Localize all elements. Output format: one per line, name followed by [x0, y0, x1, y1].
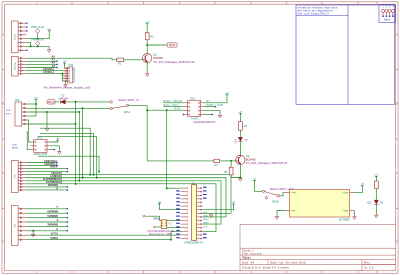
wire GND row: [26, 171, 67, 173]
wire PS1 -Vin gnd: [277, 211, 285, 216]
wire ICSP gnd: [50, 146, 59, 151]
wire MCLR stub: [147, 44, 167, 46]
wire U1 vcc left: [160, 203, 181, 210]
svg-text:PWR_FLAG: PWR_FLAG: [31, 38, 44, 41]
wire GND net: [26, 46, 49, 48]
wire MOSI/PGD: [205, 106, 216, 108]
wire gnd bend: [26, 43, 30, 47]
wire R5 to gnd: [231, 175, 240, 178]
IC pin net labels: [176, 187, 206, 239]
svg-text:Pin_HeaderPin_Header_Straight_: Pin_HeaderPin_Header_Straight_1x06: [44, 85, 91, 89]
wire R2 to base: [124, 59, 143, 61]
transistor Q2: [236, 155, 246, 164]
ground Q2: [239, 178, 243, 182]
wire AD4(SDA): [26, 162, 56, 164]
svg-text:CSTCE16M0V53-R0: CSTCE16M0V53-R0: [147, 229, 174, 233]
ground CN2: [45, 127, 49, 131]
ground PS1 in: [275, 215, 279, 219]
wire A3: [26, 67, 56, 69]
wire SW1B to PS1: [279, 193, 284, 196]
wire 1(TX): [26, 234, 180, 236]
wire PS1 -Vout: [353, 211, 355, 216]
wire CN5 gnd: [205, 111, 221, 114]
mounting holes box: [379, 5, 395, 23]
wire bundle 1: [26, 175, 231, 214]
wire R1 to Q1: [146, 40, 148, 54]
wire 4: [26, 221, 67, 223]
svg-text:C: C: [2, 171, 4, 175]
connector P4 IOL: [12, 206, 27, 246]
wire gnd stub: [32, 231, 34, 233]
ground PS1 out: [353, 216, 357, 220]
svg-text:ICSP: ICSP: [6, 110, 12, 112]
no-connect X1: [143, 215, 145, 217]
wire pin3 ext: [26, 111, 79, 113]
wire 9(PWM): [26, 186, 67, 188]
svg-text:RST: RST: [175, 108, 181, 111]
svg-text:0(RX): 0(RX): [50, 236, 58, 240]
wire Q1 emitter: [146, 62, 148, 72]
wire 5(PWM): [26, 217, 67, 219]
svg-text:C: C: [396, 171, 398, 175]
svg-text:ICSP: ICSP: [12, 144, 18, 146]
wire LED to gnd: [375, 204, 377, 214]
wire CN5 p4: [205, 114, 213, 116]
resistor R5: [229, 167, 233, 175]
svg-text:16MHz: 16MHz: [153, 218, 161, 220]
svg-text:MC78E05: MC78E05: [339, 219, 350, 221]
wire U1 vcc: [202, 204, 233, 210]
wire RST row: [147, 109, 184, 111]
ground LD1: [375, 214, 379, 218]
wire A2: [26, 63, 56, 65]
svg-text:Id: 1/1: Id: 1/1: [364, 265, 374, 269]
svg-text:ON: ON: [380, 203, 384, 205]
wire bundle 4: [26, 184, 216, 231]
wire bus V3: [78, 112, 80, 181]
svg-text:ATMEGA328P-AU: ATMEGA328P-AU: [184, 242, 203, 245]
wire SCK/PGC: [163, 106, 184, 108]
wire ATM pin3 left: [26, 132, 30, 150]
wire bus V2: [82, 108, 84, 177]
svg-text:CONN_ICSP: CONN_ICSP: [34, 154, 48, 156]
diode D2: [61, 100, 66, 104]
wire vert to R4: [146, 105, 148, 160]
svg-text:[ATM]: [ATM]: [12, 147, 18, 150]
no-connect X2: [153, 226, 155, 228]
wire ICSP vcc: [50, 140, 57, 142]
svg-text:BC846B: BC846B: [153, 56, 163, 60]
svg-text:MCLR: MCLR: [169, 45, 176, 47]
svg-text:SCK: SCK: [203, 226, 208, 228]
mounting hole MK2: [385, 9, 388, 12]
svg-text:D: D: [396, 240, 398, 244]
resistor R2: [117, 58, 124, 61]
svg-text:1N4148: 1N4148: [58, 96, 68, 100]
svg-text:Power: Power: [14, 34, 17, 40]
svg-text:KiCad E.D.A. kicad 4.0.1-stab: KiCad E.D.A. kicad 4.0.1-stable: [242, 265, 289, 269]
svg-text:TO_SOT_Packages_SMD:SOT-23: TO_SOT_Packages_SMD:SOT-23: [246, 161, 288, 165]
wire A5: [26, 72, 64, 74]
wire IC pin1: [167, 187, 181, 189]
svg-text:TO_SOT_Packages_SMD:SOT-23: TO_SOT_Packages_SMD:SOT-23: [153, 60, 195, 64]
wire R3 to LED: [239, 130, 241, 137]
svg-text:-Vout: -Vout: [343, 209, 349, 212]
wire +5V vert: [35, 99, 37, 116]
svg-text:MISO: MISO: [203, 219, 209, 221]
svg-text:5(PWM): 5(PWM): [47, 214, 58, 218]
wire bundle 2: [26, 178, 226, 217]
wire A4: [26, 70, 64, 72]
wire SW common: [129, 104, 148, 106]
svg-text:MOSI: MOSI: [203, 223, 209, 225]
svg-text:B: B: [396, 102, 398, 106]
wire CN5 vcc: [205, 94, 228, 103]
svg-text:UserPads:ARK2x4: UserPads:ARK2x4: [193, 120, 216, 124]
wire U1 gnd: [202, 212, 211, 215]
svg-text:3(PWM): 3(PWM): [47, 223, 58, 227]
resistor R1: [145, 33, 149, 40]
svg-text:B: B: [2, 102, 4, 106]
wire AD5(SCL): [26, 165, 56, 167]
svg-text:Analog: Analog: [14, 62, 17, 70]
transistor Q1: [142, 53, 152, 62]
mounting hole MK4: [391, 9, 394, 12]
svg-text:AREF: AREF: [50, 165, 58, 169]
connector P3 IOH: [12, 161, 27, 193]
wire +5V to R3: [239, 113, 241, 121]
wire bus V1: [75, 102, 77, 184]
svg-text:SW1A: SW1A: [124, 111, 131, 114]
svg-text:CN2: CN2: [15, 100, 20, 102]
wire A0 to R2: [26, 58, 117, 60]
wire LED to Q2: [239, 141, 241, 155]
wire CN4 p5: [62, 77, 64, 79]
svg-text:Rev:: Rev:: [364, 261, 371, 265]
svg-text:Switch_SPDT_x2: Switch_SPDT_x2: [118, 98, 139, 102]
wire 2: [26, 230, 67, 232]
global label MCLR: [47, 100, 55, 104]
svg-text:MCLR: MCLR: [48, 102, 55, 104]
svg-text:Size: A4: Size: A4: [242, 261, 255, 265]
wire pin5 to ICSP: [26, 120, 30, 142]
svg-text:D: D: [2, 240, 4, 244]
wire xtal1: [167, 220, 181, 222]
title block: [240, 224, 396, 270]
mounting hole MK1: [382, 9, 385, 12]
svg-text:6(PWM): 6(PWM): [47, 209, 58, 213]
svg-text:A: A: [2, 33, 4, 37]
wire PGC long: [26, 107, 110, 109]
svg-text:Rx: Rx: [207, 100, 211, 103]
wire mid horiz: [38, 156, 99, 171]
wire PS1 +Vout: [354, 186, 362, 193]
svg-text:+Vin: +Vin: [291, 193, 296, 195]
wire CN4 gnd: [65, 81, 66, 83]
wire +12V: [146, 24, 148, 33]
wire 3(PWM): [26, 225, 67, 227]
ground IOL: [31, 233, 35, 237]
wire 0(RX): [26, 231, 180, 239]
wire +5V to SW1B: [255, 180, 263, 191]
wire ICSP miso: [50, 149, 54, 151]
svg-text:SDA: SDA: [203, 215, 208, 218]
svg-text:Title:: Title:: [242, 256, 251, 260]
wire CN4 p4: [62, 75, 64, 77]
svg-text:-Vin: -Vin: [291, 210, 296, 212]
power module PS1: [290, 189, 350, 217]
wire CN4 vert: [62, 74, 64, 81]
note box (graphic lines): [296, 5, 395, 105]
svg-text:PWR_FLAG: PWR_FLAG: [31, 26, 44, 29]
svg-text:LED: LED: [236, 139, 238, 144]
wire MCLR b: [65, 101, 110, 103]
ground U1: [209, 214, 213, 218]
svg-text:1(TX): 1(TX): [51, 231, 58, 235]
wire to R5: [230, 161, 232, 167]
ground CN4: [64, 83, 68, 87]
svg-text:Resonators_SMD: Resonators_SMD: [149, 232, 172, 236]
svg-text:LD1: LD1: [367, 203, 372, 205]
svg-text:SW1B: SW1B: [272, 201, 279, 203]
svg-text:BC846B: BC846B: [246, 158, 256, 162]
wire Q2 emitter: [239, 164, 241, 177]
wire bus V5: [40, 133, 94, 174]
wire bundle 3: [26, 181, 221, 224]
wire pin6 ext: [26, 123, 75, 125]
wire pin1: [26, 103, 36, 105]
resistor R6: [374, 181, 378, 189]
svg-text:Holes: Holes: [384, 18, 391, 21]
wire to R4: [147, 160, 214, 162]
note text: [298, 5, 338, 15]
wire xtal nc: [156, 226, 161, 228]
svg-text:TX: TX: [245, 140, 248, 142]
led LD1 ON: [374, 200, 378, 204]
svg-text:IOH: IOH: [15, 174, 17, 178]
svg-text:[PIC]: [PIC]: [6, 113, 11, 115]
svg-text:+Vout: +Vout: [342, 192, 348, 195]
svg-text:Date: lun. 30 mars 2015: Date: lun. 30 mars 2015: [270, 261, 306, 265]
resonator Y1: [161, 220, 167, 229]
ground P1: [47, 49, 51, 53]
wire MCLR a: [55, 101, 60, 103]
wire 8: [26, 189, 67, 191]
led D4: [238, 137, 242, 141]
wire vert to IC pin1: [166, 110, 168, 188]
IC U1 pins: [181, 187, 203, 239]
wire +12V: [375, 176, 377, 181]
resistor R3: [239, 122, 243, 131]
wire xtal left: [145, 216, 161, 220]
wire 6(PWM): [26, 212, 67, 214]
resistor R4: [214, 159, 220, 162]
wire CN4 pin1 vcc: [64, 63, 66, 68]
wire MISO/MCLR: [163, 102, 184, 104]
wire bus V4: [40, 128, 90, 175]
ground Q1: [145, 73, 149, 77]
svg-text:A5(SCL): A5(SCL): [43, 70, 54, 74]
wire pin4: [26, 115, 36, 117]
connector CN2 ICSP PIC: [15, 102, 26, 126]
wire xtal2: [167, 227, 181, 229]
connector P2 Analog: [12, 57, 27, 77]
wire 7: [26, 208, 67, 210]
wire AREF: [26, 168, 67, 170]
wire pin3 gnd stub: [46, 112, 48, 127]
svg-text:CONN_01X06: CONN_01X06: [74, 67, 76, 83]
mounting hole MK3: [388, 9, 391, 12]
wire VCC to +5V: [26, 31, 49, 39]
svg-text:like 'uno' board Rev 3.: like 'uno' board Rev 3.: [298, 12, 330, 16]
wire R6 to LED: [375, 189, 377, 200]
wire R4 to base: [220, 160, 236, 162]
connector P1 Power: [12, 21, 27, 53]
global label MCLR 2: [167, 43, 177, 47]
svg-text:A: A: [396, 33, 398, 37]
wire bus V6: [38, 137, 97, 178]
wire A1: [26, 60, 56, 62]
ground CN5: [218, 114, 222, 118]
ground CN3: [58, 150, 62, 154]
